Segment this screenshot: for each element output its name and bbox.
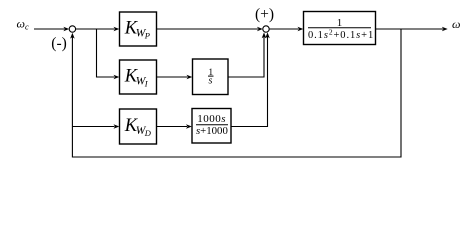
summing junction S2 xyxy=(263,26,269,32)
svg-text:c: c xyxy=(25,22,29,32)
wire S1 to block KWP xyxy=(76,27,120,32)
svg-text:(+): (+) xyxy=(255,6,274,23)
filter block 1000s/(s+1000) xyxy=(192,109,231,144)
svg-text:ω: ω xyxy=(452,17,460,31)
svg-text:s+1000: s+1000 xyxy=(196,125,228,137)
plant block 1/(0.1s^2+0.1s+1) xyxy=(304,12,376,45)
svg-text:1000s: 1000s xyxy=(197,113,226,125)
wire S2 to plant block xyxy=(269,27,303,32)
svg-text:P: P xyxy=(144,31,150,41)
wire plant to output xyxy=(376,27,448,32)
wire integrator up to S2 xyxy=(228,32,266,77)
svg-text:D: D xyxy=(144,128,152,138)
svg-text:(-): (-) xyxy=(51,35,67,52)
block KWI xyxy=(120,60,157,94)
svg-text:s: s xyxy=(209,76,213,87)
wire KWD to filter block xyxy=(157,124,192,129)
integrator block 1/s xyxy=(193,59,229,95)
wire feedback tap to KWD xyxy=(72,124,119,129)
wire error branch down to KWI xyxy=(97,29,120,79)
wire input to summing junction S1 xyxy=(34,27,69,32)
block KWP xyxy=(120,12,157,46)
input label omega_c xyxy=(17,17,30,32)
block KWD xyxy=(120,109,157,144)
summing junction S1 xyxy=(69,26,75,32)
wire filter up to S2 xyxy=(231,32,270,126)
svg-text:0.1s2+0.1s+1: 0.1s2+0.1s+1 xyxy=(308,28,374,41)
wire feedback loop xyxy=(70,29,401,157)
svg-text:ω: ω xyxy=(17,17,25,31)
wire KWI to integrator 1/s xyxy=(157,75,193,80)
wire KWP to summing junction S2 xyxy=(157,27,263,32)
